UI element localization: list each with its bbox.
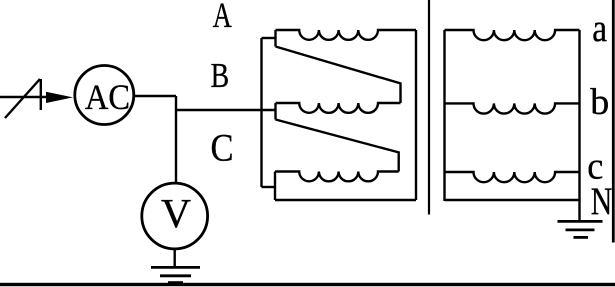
svg-text:b: b [590, 82, 609, 123]
svg-text:a: a [592, 6, 607, 50]
svg-text:AC: AC [85, 77, 130, 117]
svg-text:V: V [161, 190, 191, 236]
svg-text:B: B [211, 55, 230, 95]
svg-text:A: A [213, 0, 232, 35]
svg-text:C: C [211, 127, 234, 170]
svg-text:N: N [591, 179, 613, 223]
